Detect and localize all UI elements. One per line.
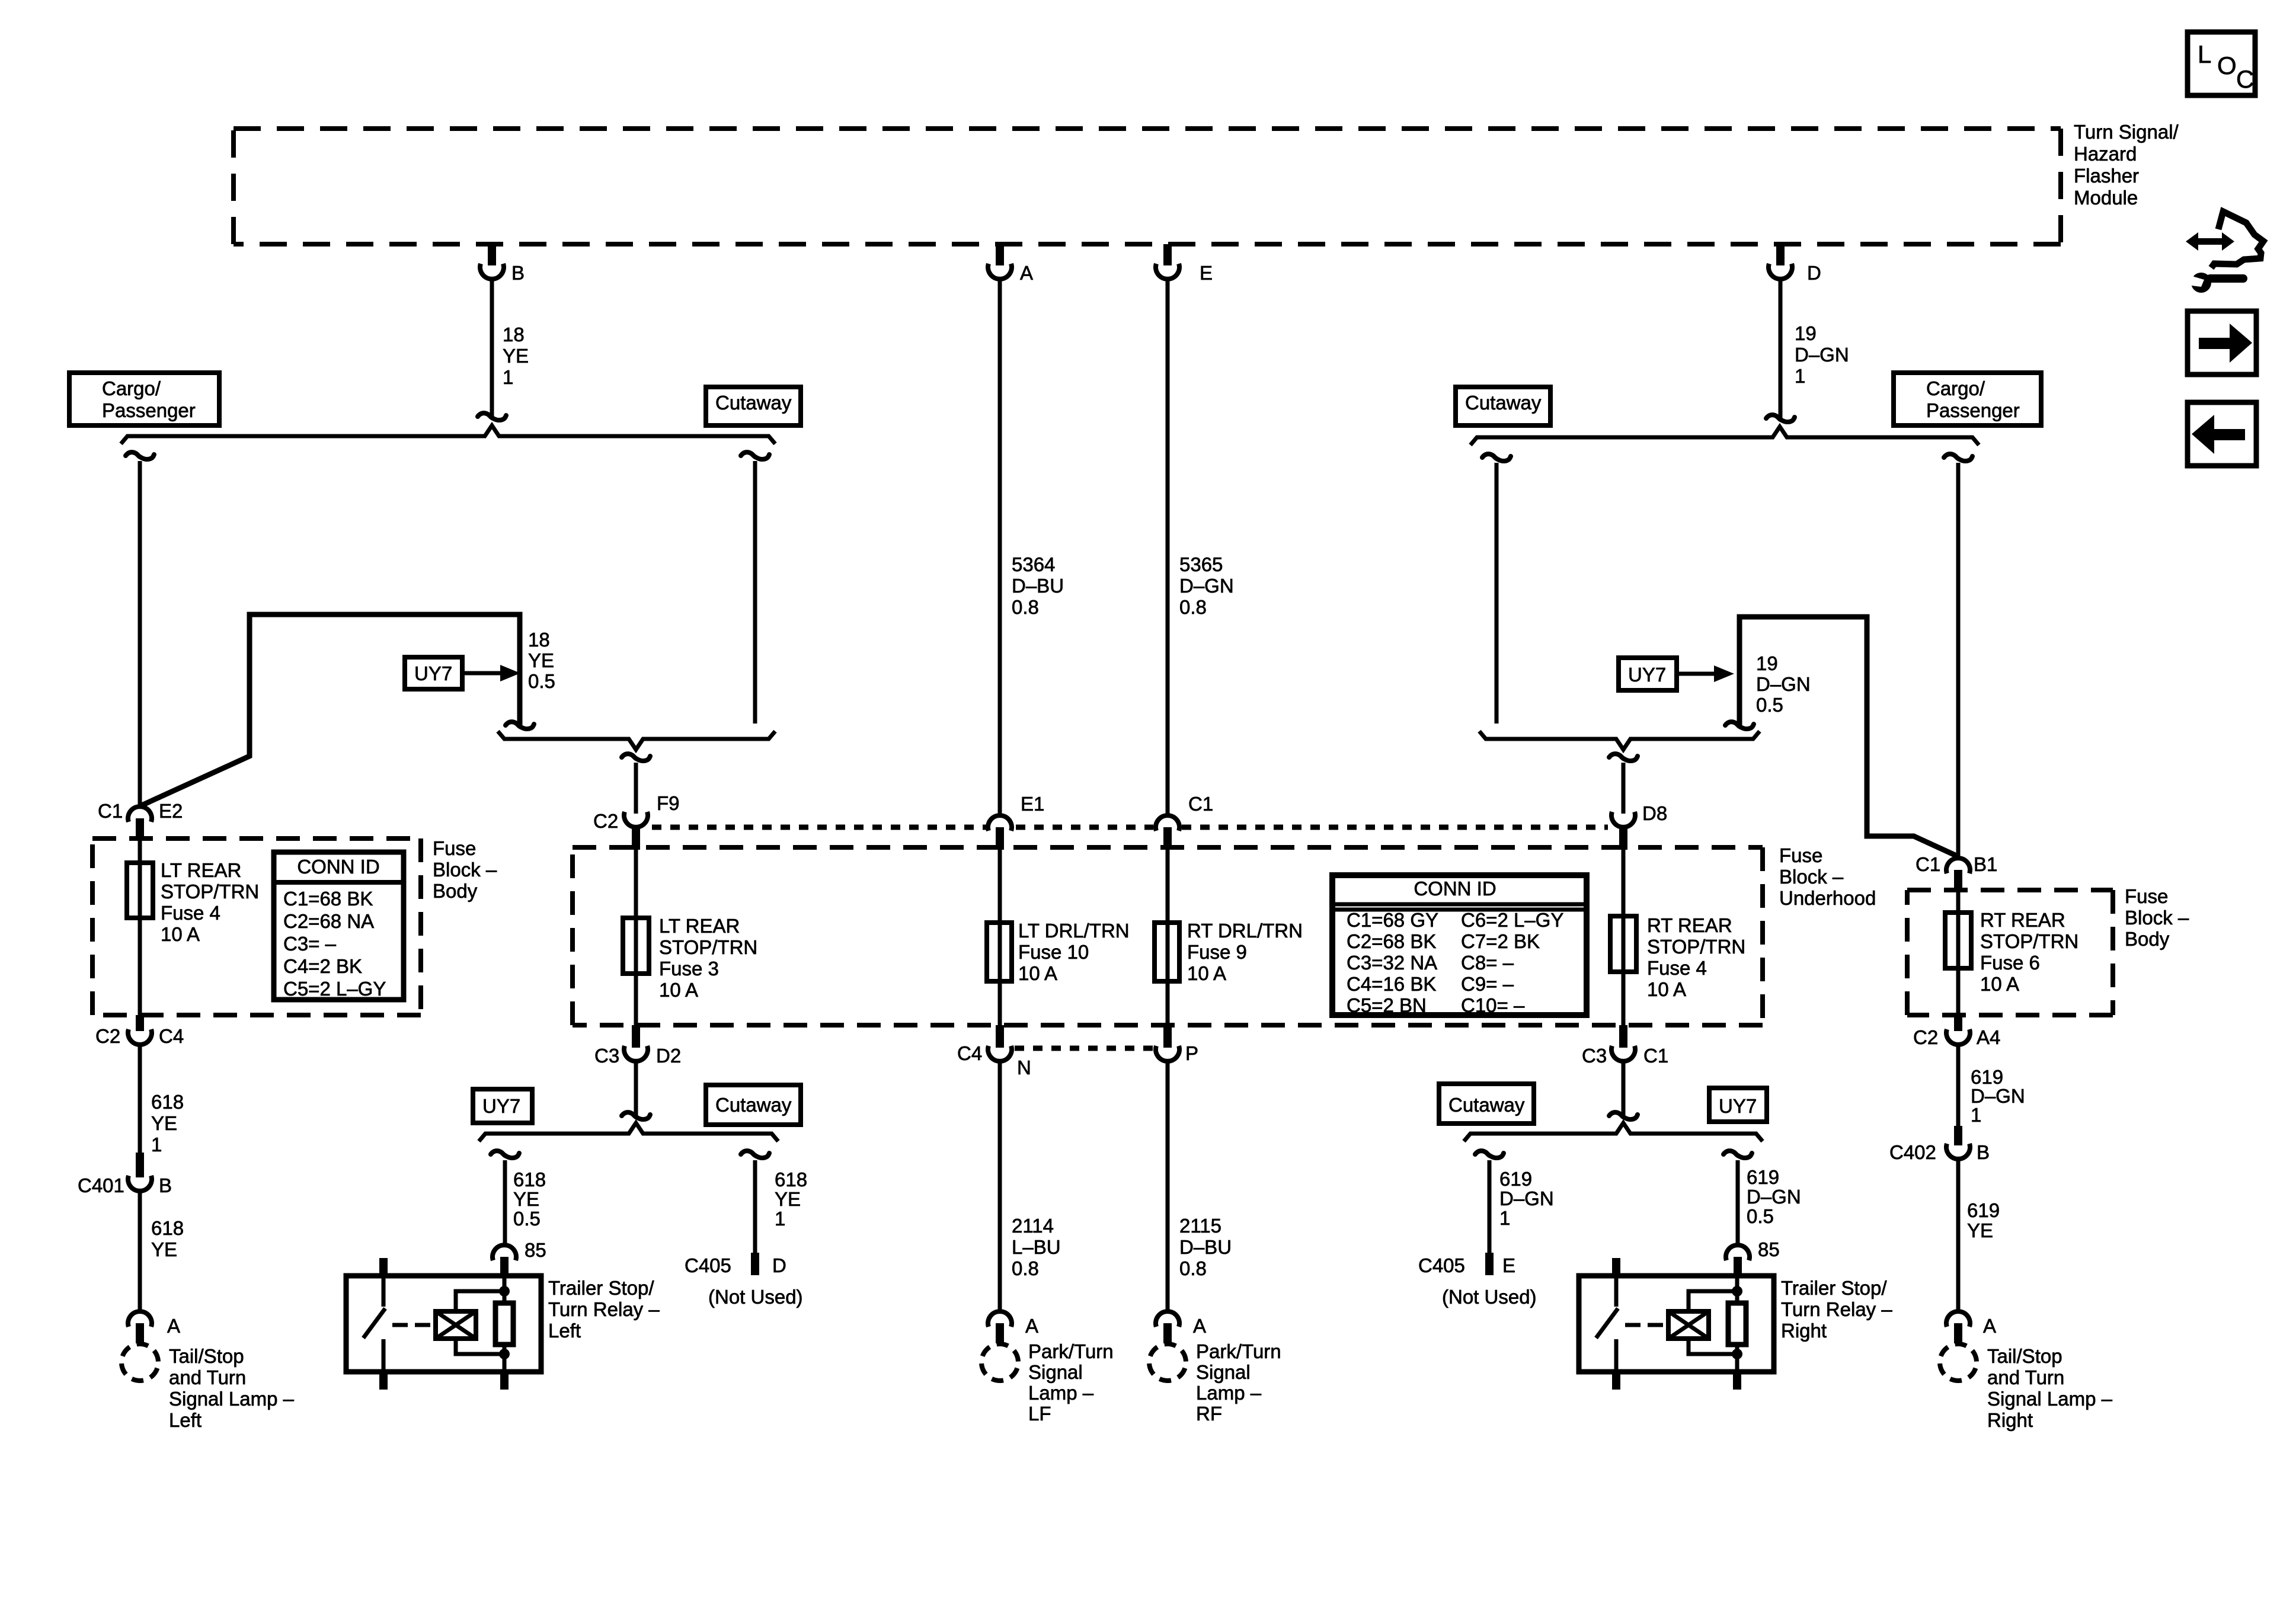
svg-text:18: 18 xyxy=(503,324,525,345)
svg-text:C7=2 BK: C7=2 BK xyxy=(1461,930,1540,952)
svg-text:STOP/TRN: STOP/TRN xyxy=(161,881,259,902)
svg-text:618: 618 xyxy=(151,1091,184,1113)
svg-text:Lamp –: Lamp – xyxy=(1028,1382,1094,1404)
svg-text:618: 618 xyxy=(151,1217,184,1239)
svg-text:C10= –: C10= – xyxy=(1461,994,1525,1016)
svg-text:Park/Turn: Park/Turn xyxy=(1028,1340,1114,1362)
svg-text:UY7: UY7 xyxy=(414,662,452,684)
svg-text:C2: C2 xyxy=(593,810,618,832)
svg-text:C4=16 BK: C4=16 BK xyxy=(1347,973,1436,995)
svg-text:2115: 2115 xyxy=(1179,1215,1221,1237)
svg-text:CONN ID: CONN ID xyxy=(297,856,379,878)
svg-text:Fuse: Fuse xyxy=(433,837,476,859)
svg-text:LT DRL/TRN: LT DRL/TRN xyxy=(1018,920,1130,942)
svg-text:C4: C4 xyxy=(957,1042,982,1064)
svg-text:B: B xyxy=(159,1174,172,1196)
svg-text:UY7: UY7 xyxy=(1719,1095,1757,1117)
svg-text:1: 1 xyxy=(503,366,513,388)
svg-text:D–GN: D–GN xyxy=(1747,1186,1801,1208)
svg-text:B1: B1 xyxy=(1974,853,1997,875)
svg-text:D–GN: D–GN xyxy=(1179,575,1234,597)
svg-text:1: 1 xyxy=(1499,1207,1510,1229)
svg-text:STOP/TRN: STOP/TRN xyxy=(659,936,757,958)
svg-text:0.5: 0.5 xyxy=(1756,694,1783,716)
svg-text:RT DRL/TRN: RT DRL/TRN xyxy=(1187,920,1303,942)
svg-text:0.8: 0.8 xyxy=(1012,596,1039,618)
svg-text:C2: C2 xyxy=(1913,1026,1938,1048)
svg-text:C4: C4 xyxy=(159,1025,184,1047)
svg-text:Module: Module xyxy=(2074,187,2138,209)
svg-text:19: 19 xyxy=(1756,652,1778,674)
svg-text:Fuse 9: Fuse 9 xyxy=(1187,941,1247,963)
svg-text:D–GN: D–GN xyxy=(1499,1188,1554,1209)
svg-text:YE: YE xyxy=(151,1112,177,1134)
svg-text:Turn Relay –: Turn Relay – xyxy=(548,1298,660,1320)
svg-text:C1: C1 xyxy=(1643,1045,1668,1067)
svg-text:A: A xyxy=(167,1315,180,1337)
svg-text:C1: C1 xyxy=(1188,793,1213,815)
svg-text:Turn Relay –: Turn Relay – xyxy=(1781,1298,1892,1320)
svg-text:10 A: 10 A xyxy=(1018,962,1057,984)
svg-text:LT REAR: LT REAR xyxy=(161,859,241,881)
svg-text:RT REAR: RT REAR xyxy=(1980,909,2065,931)
svg-text:D8: D8 xyxy=(1642,802,1667,824)
svg-text:C2=68 NA: C2=68 NA xyxy=(283,910,374,932)
svg-text:P: P xyxy=(1185,1042,1198,1064)
svg-text:LF: LF xyxy=(1028,1403,1051,1425)
svg-text:UY7: UY7 xyxy=(1628,664,1666,686)
svg-text:Passenger: Passenger xyxy=(1926,399,2020,421)
svg-text:0.8: 0.8 xyxy=(1179,1257,1207,1279)
svg-text:619: 619 xyxy=(1967,1199,2000,1221)
svg-text:C3= –: C3= – xyxy=(283,933,337,955)
svg-text:F9: F9 xyxy=(657,792,680,814)
svg-text:Cutaway: Cutaway xyxy=(715,1094,792,1116)
svg-text:(Not Used): (Not Used) xyxy=(708,1286,803,1308)
svg-text:C3: C3 xyxy=(594,1045,619,1067)
svg-text:Right: Right xyxy=(1987,1409,2033,1431)
svg-text:Block –: Block – xyxy=(1779,866,1844,888)
svg-text:Hazard: Hazard xyxy=(2074,143,2137,165)
svg-text:D: D xyxy=(1807,262,1821,284)
svg-text:Signal: Signal xyxy=(1028,1361,1083,1383)
svg-text:Block –: Block – xyxy=(2125,907,2189,929)
svg-text:E: E xyxy=(1502,1254,1515,1276)
svg-text:5364: 5364 xyxy=(1012,553,1055,575)
svg-text:Passenger: Passenger xyxy=(102,399,196,421)
svg-text:C405: C405 xyxy=(1418,1254,1465,1276)
svg-text:Tail/Stop: Tail/Stop xyxy=(1987,1345,2062,1367)
svg-text:D–GN: D–GN xyxy=(1756,673,1811,695)
svg-text:L: L xyxy=(2198,40,2211,68)
svg-text:(Not Used): (Not Used) xyxy=(1442,1286,1537,1308)
svg-text:Signal: Signal xyxy=(1196,1361,1251,1383)
svg-text:Cutaway: Cutaway xyxy=(1448,1094,1525,1116)
svg-text:Fuse 6: Fuse 6 xyxy=(1980,952,2040,974)
svg-text:C8= –: C8= – xyxy=(1461,952,1514,974)
svg-text:Left: Left xyxy=(548,1320,581,1342)
svg-text:Cutaway: Cutaway xyxy=(715,392,792,414)
svg-text:18: 18 xyxy=(528,629,550,651)
svg-text:619: 619 xyxy=(1747,1166,1779,1188)
svg-text:C1: C1 xyxy=(1916,853,1940,875)
svg-text:Flasher: Flasher xyxy=(2074,165,2139,187)
svg-text:C6=2 L–GY: C6=2 L–GY xyxy=(1461,909,1563,931)
svg-text:0.5: 0.5 xyxy=(1747,1205,1774,1227)
svg-text:C402: C402 xyxy=(1889,1141,1936,1163)
svg-text:D–BU: D–BU xyxy=(1179,1236,1232,1258)
svg-text:Fuse 4: Fuse 4 xyxy=(1647,957,1707,979)
svg-text:A: A xyxy=(1025,1315,1038,1337)
svg-text:C2=68 BK: C2=68 BK xyxy=(1347,930,1436,952)
svg-text:Signal Lamp –: Signal Lamp – xyxy=(1987,1388,2113,1410)
svg-text:0.5: 0.5 xyxy=(528,670,555,692)
svg-text:0.8: 0.8 xyxy=(1179,596,1207,618)
svg-text:C405: C405 xyxy=(685,1254,731,1276)
svg-text:A: A xyxy=(1193,1315,1206,1337)
svg-text:C5=2 BN: C5=2 BN xyxy=(1347,994,1427,1016)
svg-text:10 A: 10 A xyxy=(161,923,200,945)
svg-text:STOP/TRN: STOP/TRN xyxy=(1647,936,1745,958)
svg-text:LT REAR: LT REAR xyxy=(659,915,740,937)
svg-text:Fuse: Fuse xyxy=(2125,885,2168,907)
svg-text:C1: C1 xyxy=(98,800,123,822)
svg-text:10 A: 10 A xyxy=(1980,973,2019,995)
svg-text:Body: Body xyxy=(2125,928,2170,950)
svg-text:618: 618 xyxy=(775,1169,807,1190)
svg-text:RF: RF xyxy=(1196,1403,1222,1425)
svg-text:RT REAR: RT REAR xyxy=(1647,914,1732,936)
svg-text:A: A xyxy=(1983,1315,1996,1337)
svg-text:CONN ID: CONN ID xyxy=(1414,878,1496,900)
svg-text:Fuse 4: Fuse 4 xyxy=(161,902,220,924)
svg-text:B: B xyxy=(511,262,525,284)
svg-text:5365: 5365 xyxy=(1179,553,1223,575)
svg-text:C3=32 NA: C3=32 NA xyxy=(1347,952,1437,974)
svg-text:YE: YE xyxy=(528,649,554,671)
svg-text:C9= –: C9= – xyxy=(1461,973,1514,995)
svg-text:1: 1 xyxy=(1971,1104,1981,1126)
svg-text:619: 619 xyxy=(1499,1168,1532,1190)
svg-text:Cargo/: Cargo/ xyxy=(1926,377,1985,399)
svg-text:D2: D2 xyxy=(656,1045,681,1067)
svg-text:D: D xyxy=(772,1254,786,1276)
svg-text:D–BU: D–BU xyxy=(1012,575,1064,597)
svg-text:E: E xyxy=(1200,262,1213,284)
svg-text:C3: C3 xyxy=(1582,1045,1607,1067)
svg-text:YE: YE xyxy=(1967,1219,1993,1241)
svg-text:D–GN: D–GN xyxy=(1795,344,1849,366)
svg-text:Body: Body xyxy=(433,880,478,902)
svg-text:Underhood: Underhood xyxy=(1779,887,1876,909)
svg-text:C1=68 BK: C1=68 BK xyxy=(283,888,373,910)
svg-text:10 A: 10 A xyxy=(1187,962,1226,984)
svg-text:19: 19 xyxy=(1795,322,1817,344)
svg-text:Fuse 10: Fuse 10 xyxy=(1018,941,1089,963)
svg-text:Fuse 3: Fuse 3 xyxy=(659,958,719,980)
svg-text:Left: Left xyxy=(169,1409,202,1431)
svg-text:YE: YE xyxy=(503,345,529,367)
svg-text:1: 1 xyxy=(151,1134,162,1156)
svg-text:10 A: 10 A xyxy=(1647,978,1686,1000)
svg-text:0.5: 0.5 xyxy=(513,1208,541,1230)
svg-text:618: 618 xyxy=(513,1169,546,1190)
svg-text:Park/Turn: Park/Turn xyxy=(1196,1340,1281,1362)
svg-text:Cargo/: Cargo/ xyxy=(102,377,161,399)
svg-text:B: B xyxy=(1977,1141,1990,1163)
svg-text:Trailer Stop/: Trailer Stop/ xyxy=(548,1277,654,1299)
svg-text:YE: YE xyxy=(775,1188,801,1210)
svg-text:Right: Right xyxy=(1781,1320,1827,1342)
svg-text:C1=68 GY: C1=68 GY xyxy=(1347,909,1438,931)
svg-text:C5=2 L–GY: C5=2 L–GY xyxy=(283,978,386,1000)
svg-text:E2: E2 xyxy=(159,800,183,822)
svg-text:Fuse: Fuse xyxy=(1779,844,1822,866)
svg-text:85: 85 xyxy=(1758,1238,1780,1260)
svg-text:C4=2 BK: C4=2 BK xyxy=(283,955,362,977)
svg-text:C401: C401 xyxy=(78,1174,124,1196)
svg-text:1: 1 xyxy=(775,1208,785,1230)
svg-text:Block –: Block – xyxy=(433,859,497,881)
svg-text:O: O xyxy=(2217,52,2237,79)
svg-text:N: N xyxy=(1017,1057,1031,1078)
svg-text:A4: A4 xyxy=(1977,1026,2000,1048)
svg-text:YE: YE xyxy=(151,1238,177,1260)
svg-text:Trailer Stop/: Trailer Stop/ xyxy=(1781,1277,1887,1299)
svg-text:10 A: 10 A xyxy=(659,979,698,1001)
svg-text:and Turn: and Turn xyxy=(1987,1366,2064,1388)
svg-text:Lamp –: Lamp – xyxy=(1196,1382,1262,1404)
svg-text:C2: C2 xyxy=(95,1025,120,1047)
svg-text:E1: E1 xyxy=(1021,793,1044,815)
svg-text:A: A xyxy=(1020,262,1033,284)
svg-text:0.8: 0.8 xyxy=(1012,1257,1039,1279)
svg-text:1: 1 xyxy=(1795,365,1805,387)
svg-text:YE: YE xyxy=(513,1188,539,1210)
svg-text:85: 85 xyxy=(525,1239,546,1261)
svg-text:and Turn: and Turn xyxy=(169,1366,246,1388)
svg-text:C: C xyxy=(2236,65,2254,93)
svg-text:Signal Lamp –: Signal Lamp – xyxy=(169,1388,295,1410)
svg-text:Turn Signal/: Turn Signal/ xyxy=(2074,121,2179,143)
svg-text:UY7: UY7 xyxy=(482,1095,520,1117)
svg-text:Tail/Stop: Tail/Stop xyxy=(169,1345,244,1367)
svg-text:STOP/TRN: STOP/TRN xyxy=(1980,930,2078,952)
svg-text:Cutaway: Cutaway xyxy=(1465,392,1542,414)
svg-text:2114: 2114 xyxy=(1012,1215,1054,1237)
svg-text:L–BU: L–BU xyxy=(1012,1236,1061,1258)
